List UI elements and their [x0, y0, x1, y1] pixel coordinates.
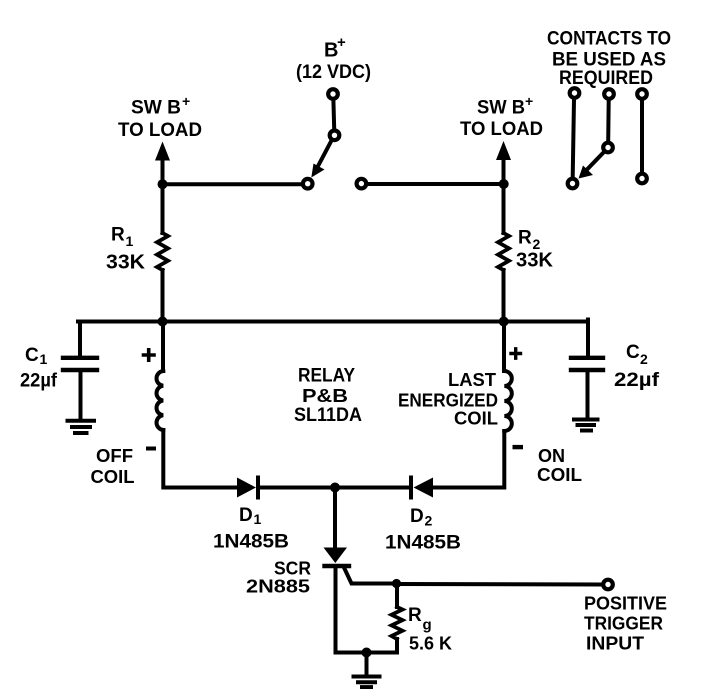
diode D2 — [411, 478, 433, 498]
switch pole terminal — [330, 131, 340, 141]
svg-text:D: D — [410, 506, 424, 527]
svg-text:5.6 K: 5.6 K — [409, 634, 452, 654]
ground stem (main) — [365, 653, 369, 676]
wire: R1 to bus — [161, 270, 165, 322]
wire: right arrow stem — [502, 158, 506, 184]
svg-text:SW B: SW B — [477, 98, 525, 119]
svg-text:+: + — [337, 34, 346, 51]
junction: bus / right branch — [499, 317, 509, 327]
wire: gate to trigger terminal — [397, 582, 602, 587]
wire: left arrow stem — [161, 158, 165, 184]
svg-text:TO LOAD: TO LOAD — [118, 120, 202, 141]
junction: diodes / SCR anode — [330, 483, 340, 493]
svg-text:1N485B: 1N485B — [213, 532, 289, 553]
wire: center junction to D2 — [335, 486, 409, 490]
ground (C1) — [68, 421, 95, 433]
ground (main) — [354, 677, 380, 688]
svg-text:1N485B: 1N485B — [385, 533, 461, 554]
wire: bus to left coil — [161, 322, 165, 372]
contact pair 3 bottom terminal — [637, 174, 647, 184]
svg-text:2: 2 — [640, 351, 648, 367]
switch arm with arrowhead S1 — [311, 142, 331, 178]
wire: switch right contact to right branch — [368, 182, 504, 186]
contact pair 1 bottom terminal — [568, 179, 578, 189]
svg-text:R: R — [111, 225, 125, 246]
arrow: SW B+ to load (left) — [155, 142, 170, 161]
switch left contact — [303, 179, 313, 189]
label SW B+ (left) — [131, 93, 190, 119]
junction: left branch / switch feed — [158, 179, 168, 189]
minus sign (left coil) — [146, 447, 156, 451]
resistor R2 — [498, 233, 509, 270]
svg-text:ENERGIZED: ENERGIZED — [398, 391, 498, 411]
coil: ON coil (right relay winding, last energized) — [504, 371, 512, 431]
diode D1 — [237, 478, 258, 498]
SCR Q1 anode wire — [333, 488, 337, 549]
wire: right coil bottom to D2 — [433, 431, 504, 488]
svg-text:2: 2 — [425, 513, 433, 529]
svg-text:COIL: COIL — [91, 467, 135, 487]
capacitor C2 lower stub — [586, 370, 590, 417]
svg-text:+: + — [182, 93, 190, 109]
contact pair 1 top terminal — [570, 88, 580, 98]
svg-text:g: g — [423, 617, 432, 634]
svg-text:1: 1 — [126, 233, 134, 249]
arrow: SW B+ to load (right) — [496, 141, 511, 160]
bus wire (top rail of relay coils) — [78, 320, 588, 324]
capacitor C1 lower stub — [79, 370, 83, 418]
label D1 — [239, 505, 262, 527]
label Rg — [408, 605, 432, 634]
wire: B+ terminal to switch pole — [331, 100, 336, 129]
svg-text:ON: ON — [538, 446, 565, 466]
label B+ — [324, 34, 346, 62]
svg-text:22µf: 22µf — [20, 371, 58, 392]
SCR Q1 (2N885) — [324, 548, 350, 567]
plus sign (right coil) — [511, 349, 521, 358]
label R2 — [518, 228, 541, 253]
ground (C2) — [574, 420, 598, 431]
label C2 — [626, 342, 648, 367]
svg-text:33K: 33K — [106, 252, 146, 274]
junction: right branch / switch feed — [499, 179, 509, 189]
svg-text:2N885: 2N885 — [246, 577, 310, 597]
terminal: B+ — [328, 89, 338, 99]
contact pair 3 top terminal — [637, 89, 647, 99]
label D2 — [410, 506, 433, 529]
resistor Rg — [392, 607, 403, 639]
svg-text:D: D — [239, 505, 253, 526]
wire: left junction down to R1 — [161, 184, 165, 233]
wire: switch left contact to left branch — [163, 182, 302, 186]
junction: bus / left branch — [158, 317, 168, 327]
SCR cathode wire — [334, 568, 338, 653]
label SW B+ (right) — [477, 93, 533, 119]
contact pair 1 wire — [573, 100, 574, 178]
resistor Rg upper stub — [395, 584, 399, 608]
SCR gate wire — [344, 567, 397, 584]
svg-text:REQUIRED: REQUIRED — [559, 68, 653, 89]
plus sign (left coil) — [144, 350, 155, 360]
svg-text:SCR: SCR — [274, 559, 311, 579]
switch right contact — [357, 179, 367, 189]
contact pair 3 wire — [640, 100, 644, 173]
contact pair 2 pole terminal — [603, 143, 613, 153]
svg-text:COIL: COIL — [537, 465, 582, 485]
junction: cathode / ground stem — [362, 648, 372, 658]
svg-text:TO LOAD: TO LOAD — [460, 119, 543, 140]
svg-text:22µf: 22µf — [614, 370, 660, 391]
capacitor C2 plates — [571, 358, 603, 370]
svg-text:SW B: SW B — [131, 98, 181, 119]
svg-text:POSITIVE: POSITIVE — [584, 594, 667, 614]
capacitor C1 plates — [63, 358, 97, 370]
label R1 — [111, 225, 134, 250]
capacitor C2 stub from bus corner — [586, 320, 590, 356]
svg-text:LAST: LAST — [448, 370, 496, 390]
svg-text:P&B: P&B — [302, 386, 348, 406]
svg-text:1: 1 — [40, 351, 48, 367]
svg-text:C: C — [25, 345, 39, 366]
terminal: positive trigger input — [603, 580, 613, 590]
svg-text:OFF: OFF — [96, 446, 133, 466]
minus sign (right coil) — [513, 445, 524, 449]
wire: SCR cathode to Rg bottom — [336, 651, 398, 655]
capacitor C1 stub from bus — [78, 322, 82, 356]
label C1 — [25, 345, 48, 367]
svg-text:RELAY: RELAY — [298, 366, 355, 387]
contact pair 2 top terminal — [604, 89, 614, 99]
svg-text:COIL: COIL — [454, 409, 498, 429]
svg-text:+: + — [525, 93, 533, 109]
junction: gate / Rg — [392, 579, 401, 588]
wire: D1 to center junction — [260, 486, 335, 490]
wire: R2 to bus — [502, 270, 506, 322]
coil: OFF coil (left relay winding) — [157, 371, 164, 430]
svg-text:33K: 33K — [516, 250, 554, 272]
svg-text:1: 1 — [254, 511, 262, 527]
resistor R1 — [157, 233, 168, 270]
svg-text:R: R — [408, 605, 422, 626]
resistor Rg lower stub — [395, 639, 399, 653]
svg-text:C: C — [626, 342, 640, 363]
contact pair 2 arm with arrowhead — [579, 153, 604, 179]
svg-text:CONTACTS TO: CONTACTS TO — [547, 29, 671, 50]
svg-text:TRIGGER: TRIGGER — [584, 614, 663, 634]
svg-text:(12 VDC): (12 VDC) — [296, 62, 371, 83]
wire: right junction down to R2 — [502, 184, 506, 233]
wire: left coil bottom to D1 — [163, 430, 237, 488]
wire: bus to right coil — [502, 322, 506, 372]
svg-text:R: R — [518, 228, 532, 249]
contact pair 2 wire — [606, 100, 611, 141]
svg-text:SL11DA: SL11DA — [294, 405, 362, 426]
svg-text:INPUT: INPUT — [586, 634, 644, 654]
